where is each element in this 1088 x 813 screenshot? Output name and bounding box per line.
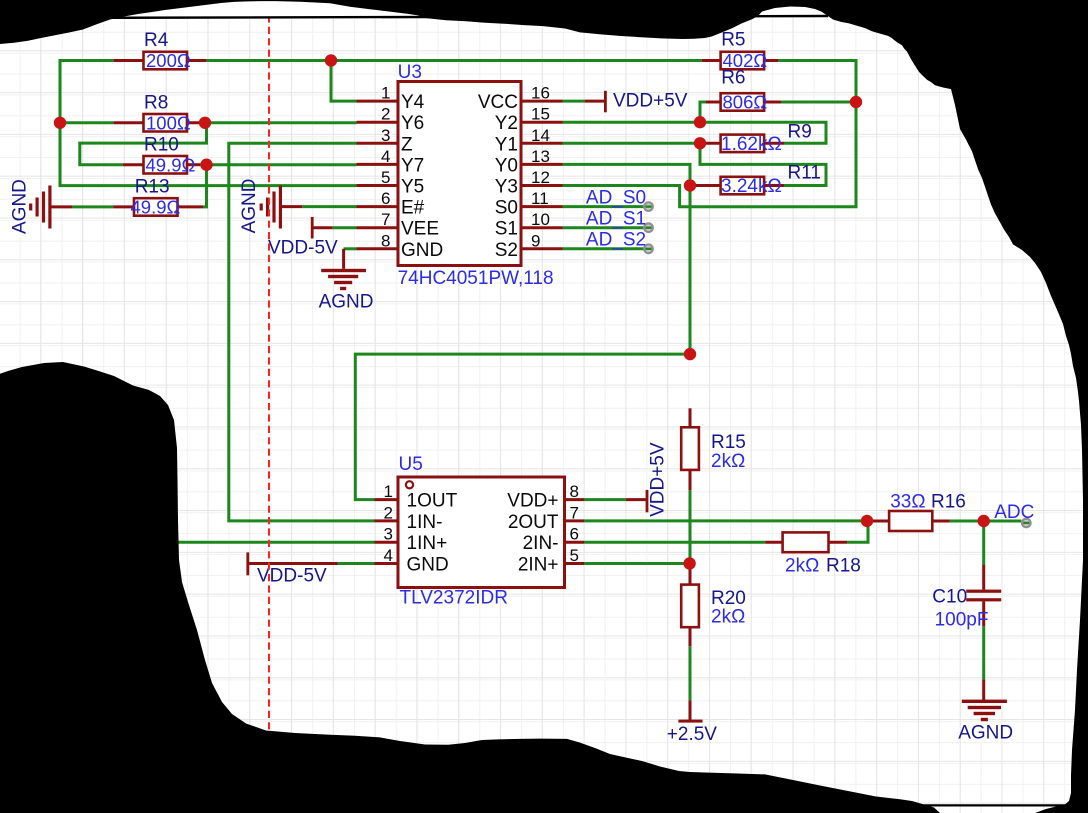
svg-text:U5: U5	[399, 454, 423, 475]
power VDD+5V (U3 VCC)	[604, 91, 688, 113]
wire U3 Y1 to R9.left	[563, 142, 701, 145]
svg-text:Y4: Y4	[401, 92, 425, 113]
U5 pin 8 (VDD+)	[507, 482, 584, 512]
svg-text:R4: R4	[144, 30, 169, 51]
wire VDD-5V to U5 GND	[338, 562, 375, 565]
wire AGND3 stem	[342, 249, 345, 269]
svg-text:TLV2372IDR: TLV2372IDR	[400, 588, 508, 609]
wire AGND1 lead	[52, 205, 73, 208]
svg-text:33Ω: 33Ω	[890, 492, 925, 513]
R13 leads	[114, 205, 204, 208]
svg-text:VDD+5V: VDD+5V	[613, 91, 688, 112]
no-connect marker	[644, 202, 653, 211]
svg-text:1IN+: 1IN+	[407, 533, 448, 554]
wire U5 VDD+ power lead	[626, 498, 648, 501]
U3 pin 9 (S2)	[495, 231, 563, 260]
svg-text:VEE: VEE	[401, 219, 439, 240]
junction	[978, 515, 990, 527]
U5 pin1 indicator	[406, 481, 413, 488]
svg-text:U3: U3	[398, 62, 422, 83]
svg-text:2kΩ: 2kΩ	[785, 556, 819, 577]
svg-text:1.62kΩ: 1.62kΩ	[721, 134, 782, 155]
U3 pin 3 (Z)	[357, 126, 414, 156]
svg-text:200Ω: 200Ω	[146, 50, 191, 71]
svg-text:14: 14	[531, 126, 550, 145]
svg-text:R10: R10	[144, 135, 179, 156]
black pen line (bottom right)	[920, 804, 1066, 806]
resistor R11	[721, 177, 765, 195]
svg-text:VDD+5V: VDD+5V	[648, 442, 669, 517]
R4 leads	[114, 59, 207, 62]
svg-text:12: 12	[531, 168, 550, 187]
svg-text:R15: R15	[711, 432, 746, 453]
no-connect marker	[644, 223, 653, 232]
U3 pin 2 (Y6)	[357, 105, 425, 135]
R20 leads	[689, 564, 692, 647]
svg-text:AGND: AGND	[239, 178, 260, 233]
wire VCC power lead	[585, 100, 606, 103]
svg-text:3.24kΩ: 3.24kΩ	[721, 176, 782, 197]
resistor R4	[144, 52, 188, 70]
svg-text:AD_S1: AD_S1	[586, 209, 646, 230]
svg-text:Y0: Y0	[495, 155, 518, 176]
svg-text:1IN-: 1IN-	[407, 512, 443, 533]
ground AGND (C10)	[958, 700, 1013, 744]
op-amp U5 box	[398, 477, 565, 588]
svg-text:GND: GND	[401, 240, 443, 261]
svg-text:C10: C10	[932, 587, 967, 608]
svg-text:VDD+: VDD+	[507, 491, 558, 512]
wire AGND to U3 pin6 E#	[302, 205, 356, 208]
junction	[861, 515, 873, 527]
svg-text:7: 7	[381, 210, 390, 229]
wire R4.left to U3 Y5	[60, 61, 357, 186]
svg-text:AD_S0: AD_S0	[586, 188, 646, 209]
svg-text:4: 4	[384, 546, 393, 565]
svg-text:R18: R18	[826, 556, 861, 577]
dashed boundary line	[268, 4, 270, 748]
wire U3 S1	[563, 226, 648, 229]
power +2.5V (R20)	[667, 720, 718, 745]
wire U3 Z to U5 1IN-	[229, 143, 375, 521]
svg-text:1OUT: 1OUT	[407, 491, 458, 512]
svg-text:Y6: Y6	[401, 113, 424, 134]
svg-text:3: 3	[381, 126, 390, 145]
svg-text:Y3: Y3	[495, 177, 518, 198]
resistor R20	[681, 585, 699, 628]
resistor R10	[144, 156, 188, 174]
U3 pin 10 (S1)	[495, 210, 563, 240]
resistor R15	[681, 427, 699, 470]
svg-text:10: 10	[531, 210, 550, 229]
svg-text:S1: S1	[495, 219, 518, 240]
svg-text:2kΩ: 2kΩ	[711, 451, 745, 472]
svg-text:AD_S2: AD_S2	[586, 230, 646, 251]
wire to U5 1IN+	[178, 541, 375, 544]
svg-text:E#: E#	[401, 198, 425, 219]
wire U5 GND power lead	[249, 562, 338, 565]
svg-text:806Ω: 806Ω	[723, 92, 768, 113]
svg-text:1: 1	[384, 482, 393, 501]
ground AGND (below U3)	[319, 269, 374, 313]
svg-text:3: 3	[384, 525, 393, 544]
svg-text:2: 2	[384, 503, 393, 522]
R5 leads	[702, 59, 778, 62]
wire AGND to R13.left	[72, 205, 114, 208]
U5 pin 3 (1IN+)	[375, 525, 448, 555]
svg-text:100pF: 100pF	[935, 610, 989, 631]
R6 leads	[706, 101, 781, 104]
svg-text:AGND: AGND	[958, 723, 1013, 744]
wire U5 2IN+ to divider	[584, 562, 690, 565]
svg-text:8: 8	[570, 482, 579, 501]
wire Y1 node to R11.right	[700, 143, 826, 185]
U5 pin 5 (2IN+)	[518, 546, 584, 576]
ground AGND (E# pin)	[239, 178, 282, 233]
no-connect marker	[644, 245, 653, 254]
svg-text:R9: R9	[788, 122, 812, 143]
wire AGND4 stem	[982, 679, 985, 701]
svg-text:R5: R5	[721, 30, 745, 51]
wire U3 pin8 GND	[344, 247, 357, 250]
wire VDD-5V lead	[313, 226, 332, 229]
multiplexer U3 box	[398, 82, 521, 266]
svg-text:7: 7	[570, 503, 579, 522]
no-connect marker	[1022, 519, 1031, 528]
svg-text:1: 1	[381, 84, 390, 103]
wire U3 S0	[563, 205, 648, 208]
power VDD-5V (U5 GND)	[246, 552, 327, 586]
wire node to U5 1OUT	[355, 354, 690, 500]
wire U3 VCC to VDD+5V	[563, 100, 585, 103]
U3 pin 15 (Y2)	[495, 105, 563, 135]
svg-text:GND: GND	[407, 555, 449, 576]
svg-text:49.9Ω: 49.9Ω	[131, 197, 181, 218]
junction	[684, 348, 696, 360]
svg-text:AGND: AGND	[319, 292, 374, 313]
wire R20 to +2.5V lead	[689, 700, 692, 721]
R18 leads	[765, 541, 847, 544]
junction	[684, 179, 696, 191]
svg-text:6: 6	[570, 525, 579, 544]
wire to R8.left	[60, 121, 114, 124]
svg-text:402Ω: 402Ω	[723, 50, 768, 71]
wire VDD-5V to U3 pin7 VEE	[332, 226, 356, 229]
svg-text:49.9Ω: 49.9Ω	[146, 154, 196, 175]
R8 leads	[114, 121, 205, 124]
svg-text:9: 9	[531, 231, 540, 250]
C10 stems	[982, 565, 985, 627]
U5 pin 2 (1IN-)	[375, 503, 443, 533]
wire AGND2 lead	[282, 205, 302, 208]
svg-text:VCC: VCC	[478, 92, 518, 113]
svg-text:Y1: Y1	[495, 134, 518, 155]
junction	[683, 557, 695, 569]
U3 pin 6 (E#)	[357, 189, 425, 219]
junction	[694, 116, 706, 128]
resistor R16	[889, 511, 932, 531]
U5 pin 6 (2IN-)	[523, 525, 584, 555]
U3 pin 12 (Y3)	[495, 168, 563, 198]
svg-text:R11: R11	[788, 163, 821, 184]
svg-text:S2: S2	[495, 240, 518, 261]
junction	[199, 117, 211, 129]
svg-text:15: 15	[531, 105, 550, 124]
ground AGND (left, R13)	[9, 179, 51, 234]
wire R8.right to U3 pin2 Y6	[205, 121, 357, 124]
wire R16.right to ADC	[950, 520, 1022, 523]
U3 pin 16 (VCC)	[478, 84, 563, 114]
svg-text:5: 5	[381, 168, 390, 187]
R9 leads	[700, 142, 784, 145]
R11 leads	[690, 184, 784, 187]
junction	[200, 159, 212, 171]
wire U3 S2	[563, 247, 648, 250]
U3 pin 11 (S0)	[495, 189, 563, 219]
junction	[694, 137, 706, 149]
R15 leads	[689, 408, 692, 490]
svg-text:2kΩ: 2kΩ	[711, 607, 745, 628]
svg-text:AGND: AGND	[9, 179, 30, 234]
U3 pin 8 (GND)	[357, 231, 444, 260]
U5 pin 1 (1OUT)	[375, 482, 458, 512]
wire R10.right to U3 pin4 Y7	[200, 163, 357, 166]
resistor R13	[134, 198, 178, 216]
svg-text:ADC: ADC	[994, 502, 1034, 523]
svg-text:VDD-5V: VDD-5V	[257, 566, 327, 587]
wire R6.right	[781, 101, 856, 104]
svg-text:2OUT: 2OUT	[508, 512, 559, 533]
power VDD-5V (U3 VEE)	[268, 217, 338, 259]
svg-text:Y5: Y5	[401, 177, 424, 198]
black pen line (top)	[106, 16, 828, 18]
capacitor C10	[966, 590, 1001, 602]
svg-text:Y7: Y7	[401, 155, 424, 176]
svg-text:4: 4	[381, 147, 390, 166]
svg-text:2: 2	[381, 105, 390, 124]
wire C10 to AGND	[982, 626, 985, 679]
wire R10.right to R13.right	[203, 165, 207, 207]
wire R20 to +2.5V	[689, 646, 692, 700]
svg-text:R16: R16	[931, 492, 966, 513]
U3 pin 7 (VEE)	[357, 210, 440, 240]
wire R18.right up to 2OUT node	[847, 521, 868, 542]
U5 pin 4 (GND)	[375, 546, 449, 576]
svg-text:2IN-: 2IN-	[523, 533, 559, 554]
svg-text:5: 5	[570, 546, 579, 565]
svg-text:R13: R13	[135, 177, 170, 198]
wire U3 Y2 to R9.right	[563, 122, 827, 143]
U5 pin 7 (2OUT)	[508, 503, 584, 533]
wire R4.right to R5.left	[206, 59, 702, 62]
power VDD+5V (U5 VDD+)	[646, 442, 669, 517]
junction	[850, 96, 862, 108]
svg-text:Z: Z	[401, 134, 413, 155]
wire R15 to R20 node	[689, 490, 692, 563]
wire U5 2OUT to R16	[584, 519, 867, 522]
U3 pin 14 (Y1)	[495, 126, 563, 156]
junction	[54, 117, 66, 129]
junction	[325, 54, 337, 66]
resistor R8	[144, 114, 188, 132]
resistor R18	[783, 532, 829, 552]
resistor R9	[721, 135, 765, 153]
svg-text:R8: R8	[144, 93, 168, 114]
U3 pin 1 (Y4)	[357, 84, 425, 114]
svg-text:2IN+: 2IN+	[518, 555, 559, 576]
wire ADC node to C10	[982, 521, 985, 565]
U3 pin 4 (Y7)	[357, 147, 425, 177]
svg-text:11: 11	[531, 189, 549, 208]
svg-text:100Ω: 100Ω	[146, 112, 191, 133]
resistor R6	[721, 93, 765, 111]
svg-text:8: 8	[381, 231, 390, 250]
wire U5 VDD+ to VDD+5V	[584, 498, 626, 501]
wire U3 Y0 down to op-amp node	[563, 164, 691, 354]
wire branch to U3 pin1 Y4	[331, 61, 357, 102]
svg-text:+2.5V: +2.5V	[667, 724, 718, 745]
svg-text:VDD-5V: VDD-5V	[268, 238, 338, 259]
svg-text:74HC4051PW,118: 74HC4051PW,118	[398, 268, 554, 289]
wire U3 Y3 to R5.right	[563, 61, 857, 207]
wire R8.right to R10.left	[80, 123, 207, 165]
svg-text:Y2: Y2	[495, 113, 518, 134]
svg-text:13: 13	[531, 147, 550, 166]
U3 pin 13 (Y0)	[495, 147, 563, 177]
wire Y2 node to R6.left	[700, 102, 706, 122]
resistor R5	[721, 52, 765, 70]
svg-text:16: 16	[531, 84, 550, 103]
svg-text:6: 6	[381, 189, 390, 208]
svg-text:S0: S0	[495, 198, 518, 219]
R16 leads	[867, 520, 950, 523]
R10 leads	[123, 163, 200, 166]
wire U5 2IN- to R18.left	[584, 541, 765, 544]
U3 pin 5 (Y5)	[357, 168, 425, 198]
